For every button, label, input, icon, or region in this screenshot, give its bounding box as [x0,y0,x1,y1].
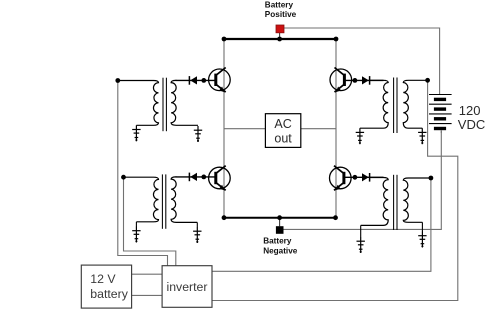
diode D4 (Q4 base) [362,173,370,182]
transformer T3 primary winding (left) [124,177,159,222]
wire: T1 primary top down-left feed to inverter top pin 1 [118,81,168,266]
svg-text:battery: battery [90,287,128,301]
wire: T1 secondary top to diode D1 and Q1 base [176,79,216,81]
wire: left bridge vertical (Q1 collector-emitter to Q3) [223,39,225,218]
ground (T2 drive winding return) [418,128,426,144]
junction: top rail left (Q1 collector) [222,37,227,42]
battery B1: 120 VDC stack [429,95,452,131]
ground (T3 secondary return) [193,227,201,243]
junction: bottom rail left (Q3 emitter) [222,215,227,220]
wire: battery negative return from 120VDC battery - to black node [283,131,441,230]
wire: AC out box left lead [224,128,265,130]
12 V battery box [81,265,131,308]
wire: T4 drive winding feed to inverter right pin 1 [212,178,431,271]
transformer T4 core [394,175,397,230]
wire: 12V battery to inverter upper lead [132,273,163,275]
transistor Q4 (NPN, lower-right) [330,166,352,191]
wire: red node stub down to top rail junction [279,32,281,40]
node: Battery Negative terminal (black square) [276,226,284,234]
wire: T3 secondary top to diode D3 and Q3 base [176,176,216,178]
wire: black node stub up to bottom rail junction [279,218,281,227]
junction: T4 drive winding top node [429,176,434,181]
junction: T3 primary top node [121,175,126,180]
transformer T1 primary winding (left) [118,81,159,126]
junction: Q1 base node [201,78,206,83]
inverter box [162,266,212,308]
ground (T4 drive winding return) [418,232,426,248]
transformer T2 base-feedback winding (left) [360,80,388,128]
transformer T3 secondary winding (right) [171,177,197,223]
transistor Q2 (NPN, upper-right) [330,68,352,93]
wire: T4 left winding top to diode D4 and Q4 base [345,176,384,178]
junction: bottom rail centre (battery negative tap) [277,215,282,220]
transformer T2 drive winding (right) [403,80,427,128]
wire: T4 drive winding return down to ground [421,222,423,231]
transformer T1 secondary winding (right) [171,80,198,125]
transistor Q3 (NPN, lower-left) [209,166,231,191]
junction: top rail centre (battery positive tap) [277,37,282,42]
svg-text:Battery: Battery [263,236,292,245]
AC out box [265,114,300,148]
junction: T2 drive winding top node [425,78,430,83]
junction: Q3 base node [201,175,206,180]
wire: T2 left winding top to diode D2 and Q2 base [346,79,384,81]
transformer T4 base-feedback winding (left) [361,178,389,226]
junction: bottom rail right (Q4 emitter) [333,215,338,220]
ground (T2 left winding return) [356,128,364,144]
svg-text:120: 120 [459,103,481,118]
junction: T1 primary top node [115,78,120,83]
ground (T1 primary return) [132,125,140,141]
ground (T1 secondary return) [194,126,202,142]
wire: battery internal bottom stub [440,130,442,133]
diode D2 (Q2 base) [362,76,370,85]
svg-text:Battery: Battery [265,0,294,9]
diode D1 (Q1 base) [189,76,197,85]
wire: 12V battery to inverter lower lead [132,294,163,296]
transformer T1 core [163,78,166,132]
ground (T4 left winding return) [357,237,365,253]
svg-text:inverter: inverter [166,280,207,294]
diode D3 (Q3 base) [189,173,197,182]
transformer T4 drive winding (right) [403,178,431,222]
wire: T3 primary return down to ground [135,222,137,227]
junction: Q4 base node [353,175,358,180]
junction: top rail right (Q2 collector) [334,37,339,42]
transformer T2 core [394,78,397,134]
wire: T2 drive winding feed around right side to inverter right pin 2 [212,80,458,300]
svg-text:12 V: 12 V [90,272,116,286]
ground (T3 primary return) [132,227,140,243]
wire: top rail (battery positive bus between Q1 and Q2 collectors) [223,38,336,40]
wire: T3 secondary return down to ground [196,222,198,227]
junction: Q2 base node [353,78,358,83]
svg-text:VDC: VDC [458,117,485,132]
svg-text:Positive: Positive [265,10,297,19]
wire: T3 primary top feed to inverter top pin 2 [124,177,176,266]
svg-text:out: out [274,131,292,145]
wire: T4 left winding return down to ground [360,225,362,237]
transformer T3 core [162,174,165,228]
wire: bottom rail (battery negative bus between Q3 and Q4 emitters) [223,217,336,219]
transistor Q1 (NPN, upper-left) [209,68,231,93]
svg-text:AC: AC [274,117,291,131]
svg-text:Negative: Negative [263,246,298,255]
wire: right bridge vertical (Q2 to Q4) [335,39,337,218]
wire: battery-positive feed from red node right then down to 120VDC battery + [284,28,440,94]
wire: AC out box right lead [301,128,336,130]
node: Battery Positive terminal (red square) [276,25,284,33]
